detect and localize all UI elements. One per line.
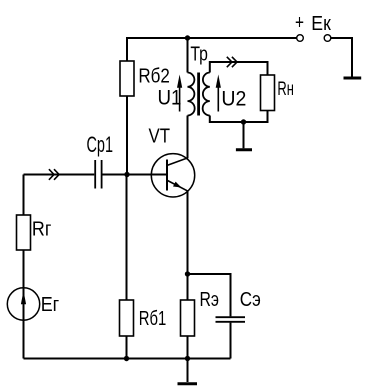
svg-text:Тр: Тр: [190, 44, 208, 66]
svg-text:Ср1: Ср1: [87, 132, 114, 157]
svg-text:U2: U2: [221, 87, 246, 110]
svg-text:VT: VT: [149, 126, 171, 148]
svg-text:Rэ: Rэ: [200, 289, 220, 311]
svg-text:Сэ: Сэ: [240, 289, 261, 311]
svg-text:Rг: Rг: [32, 218, 52, 240]
svg-text:Rб1: Rб1: [139, 308, 167, 330]
svg-text:U1: U1: [158, 87, 182, 110]
svg-text:Ег: Ег: [41, 294, 60, 316]
svg-text:Rб2: Rб2: [138, 66, 170, 88]
svg-text:Rн: Rн: [277, 78, 294, 100]
svg-text:+: +: [295, 12, 304, 34]
svg-text:Ек: Ек: [311, 13, 331, 35]
